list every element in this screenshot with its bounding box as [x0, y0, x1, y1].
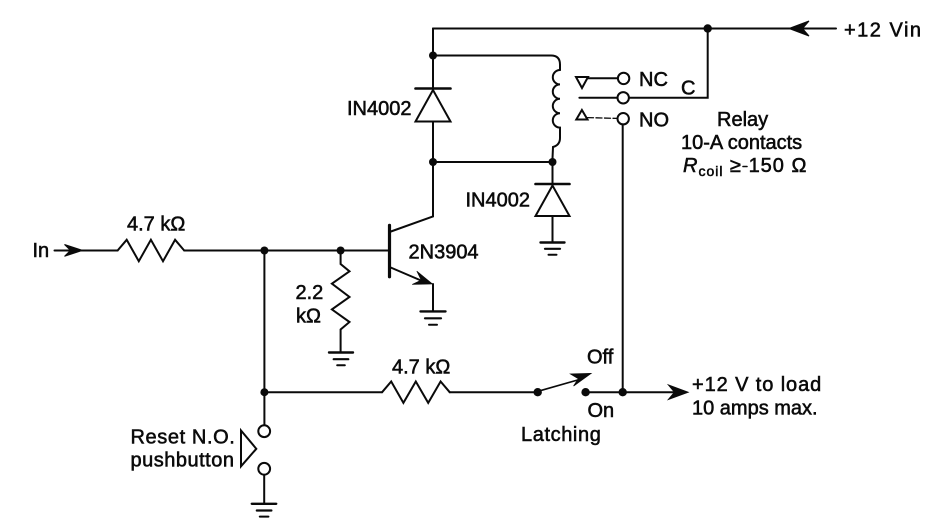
wire from rail down to C contact [629, 29, 708, 98]
transistor Q1 emitter [390, 267, 422, 281]
svg-text:C: C [681, 78, 695, 100]
diode D2 cathode bar [536, 183, 570, 186]
switch S1 arm arrowhead [571, 373, 592, 386]
resistor R1 4.7 kOhm [118, 240, 185, 261]
small scan dash before 150 [743, 166, 747, 168]
svg-text:Off: Off [587, 347, 614, 369]
wire node A down to latch row [263, 251, 265, 393]
relay NO fixed contact triangle [576, 110, 587, 120]
wire NC contact [588, 77, 618, 79]
svg-text:4.7 kΩ: 4.7 kΩ [392, 357, 450, 379]
svg-text:NO: NO [639, 110, 669, 132]
svg-text:On: On [588, 400, 615, 422]
svg-text:2.2: 2.2 [296, 282, 324, 304]
diode D1 IN4002 (flyback) wire top [432, 56, 434, 89]
diode D2 IN4002 wire top [552, 162, 554, 184]
svg-text:10 amps max.: 10 amps max. [692, 398, 818, 420]
svg-text:+12 V to load: +12 V to load [692, 374, 822, 396]
pushbutton top terminal circle [258, 425, 270, 437]
svg-text:In: In [33, 240, 50, 262]
relay NC fixed contact triangle [576, 77, 588, 88]
svg-text:4.7 kΩ: 4.7 kΩ [127, 214, 185, 236]
diode D1 cathode bar [416, 87, 451, 90]
diode D2 triangle [536, 186, 570, 217]
diode D2 wire to ground [552, 216, 554, 242]
diode D1 triangle [416, 90, 451, 122]
svg-text:pushbutton: pushbutton [131, 450, 235, 472]
svg-text:Reset N.O.: Reset N.O. [131, 427, 236, 449]
emitter arrowhead [412, 271, 432, 284]
ground below Q1 emitter [421, 310, 446, 312]
switch S1 arm [542, 380, 580, 391]
arrowhead on +12 Vin wire (pointing left) [789, 21, 809, 36]
resistor R2 2.2 kOhm (vertical) [332, 251, 350, 353]
junction node C (latch row) [260, 388, 268, 396]
pushbutton bottom terminal circle [258, 463, 270, 475]
junction node bottom of D1 [429, 158, 437, 166]
svg-text:+12 Vin: +12 Vin [844, 20, 923, 42]
wire top rail corner down to flyback node [432, 29, 434, 56]
wire NO contact down to load switch [622, 125, 624, 392]
wire R3 to switch [450, 391, 538, 393]
svg-text:IN4002: IN4002 [347, 98, 412, 120]
wire R1 to base node [184, 250, 388, 252]
pushbutton actuator triangle [241, 431, 256, 467]
ground below D2 [541, 241, 565, 243]
C contact circle [618, 92, 629, 103]
switch S1 On pole dot [581, 388, 589, 396]
wire On pole to load [586, 391, 673, 393]
diode D1 wire bottom [432, 122, 434, 163]
svg-text:Latching: Latching [521, 424, 601, 446]
NC contact circle [618, 73, 629, 84]
junction node top of D1/coil [429, 52, 437, 60]
junction node A (input/pushbutton) [260, 247, 268, 255]
ground below R2 [329, 351, 353, 353]
wire +12 Vin top rail [433, 28, 836, 30]
junction node D (NO line joins load wire) [619, 388, 627, 396]
wire node C down to pushbutton [263, 392, 265, 425]
transistor Q1 collector [390, 162, 434, 232]
switch S1 throw dot [534, 388, 542, 396]
svg-text:Relay: Relay [717, 109, 768, 131]
svg-text:2N3904: 2N3904 [409, 242, 479, 264]
svg-text:NC: NC [639, 69, 668, 91]
junction node B (2.2k top) [337, 247, 345, 255]
arrowhead on input wire (pointing right) [65, 245, 83, 257]
wire bottom rail between D1 and coil [433, 161, 553, 163]
arrowhead to load (pointing right) [669, 385, 689, 399]
wire NO contact (thin) [588, 117, 618, 120]
svg-text:10-A contacts: 10-A contacts [681, 132, 802, 154]
wire pushbutton to ground [263, 475, 265, 504]
ground below pushbutton [252, 503, 276, 505]
junction node coil bottom [549, 158, 557, 166]
junction node on top rail (C feed) [704, 24, 712, 32]
wire emitter to ground [432, 284, 434, 311]
wire coil top feed [433, 56, 560, 71]
wire latch row left [264, 391, 382, 393]
svg-text:kΩ: kΩ [296, 306, 321, 328]
wire C common left stub [579, 97, 617, 99]
transistor Q1 2N3904 base bar [388, 225, 391, 276]
svg-text:IN4002: IN4002 [466, 190, 531, 212]
relay coil L1 [553, 70, 561, 159]
NO contact circle [618, 113, 629, 124]
resistor R3 4.7 kOhm [382, 382, 450, 403]
input wire from In [55, 250, 118, 252]
